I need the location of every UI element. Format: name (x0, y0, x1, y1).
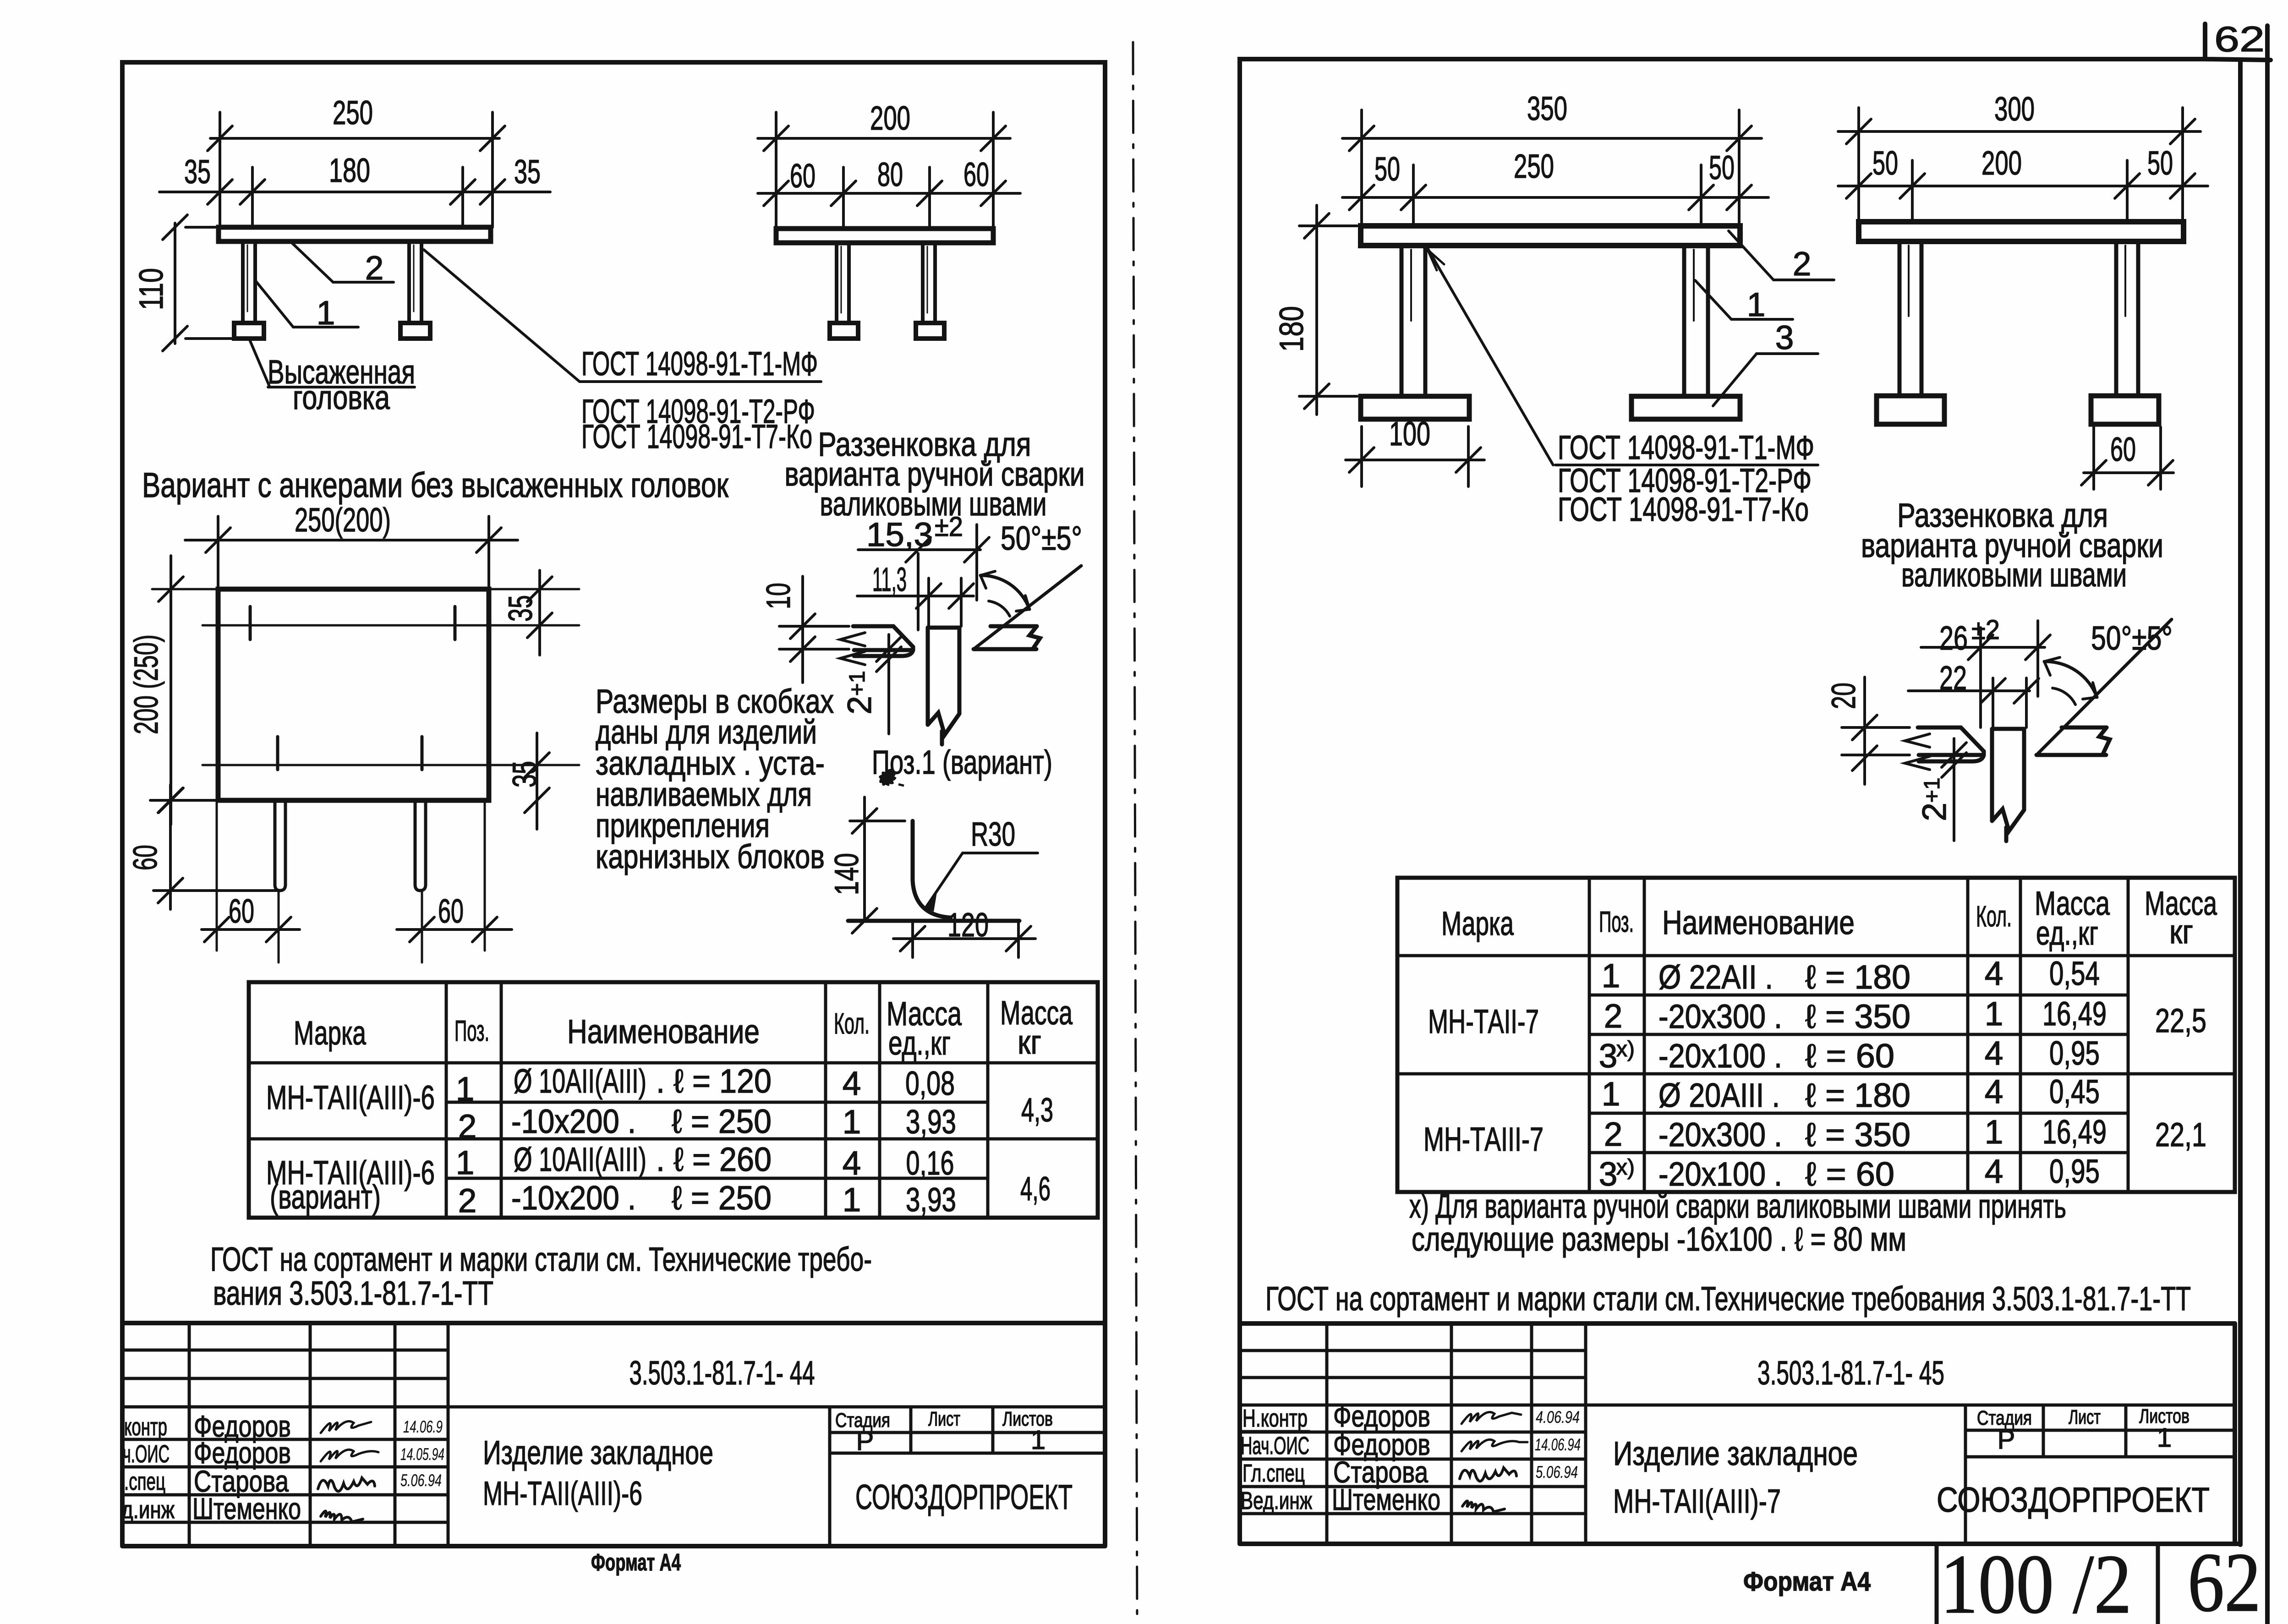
svg-text:Штеменко: Штеменко (1332, 1482, 1440, 1516)
svg-text:Ø 10АII(АIII): Ø 10АII(АIII) (514, 1141, 646, 1178)
svg-text:кг: кг (2169, 913, 2193, 951)
leader to GOST list (424, 250, 580, 382)
svg-text:16,49: 16,49 (2042, 1114, 2107, 1151)
svg-text:-10х200 .: -10х200 . (511, 1180, 636, 1217)
svg-text:50: 50 (1709, 149, 1735, 186)
anchor head left (830, 323, 858, 339)
svg-text:Лист: Лист (928, 1408, 960, 1430)
anchor legs below square (275, 800, 426, 891)
anchor rod section (928, 628, 959, 744)
svg-text:14.06.94: 14.06.94 (1535, 1435, 1581, 1454)
svg-text:ч.ОИС: ч.ОИС (123, 1440, 170, 1468)
svg-text:10: 10 (760, 583, 797, 609)
svg-text:-20х300 .: -20х300 . (1659, 998, 1782, 1035)
foot R1 left (1361, 396, 1469, 419)
drawing A: plate 250 side view (159, 112, 550, 351)
svg-text:МН-ТАII(АIII)-6: МН-ТАII(АIII)-6 (483, 1475, 642, 1512)
svg-text:(вариант): (вариант) (270, 1179, 381, 1216)
dim line 60 80 60 (758, 192, 1020, 195)
svg-text:ГОСТ 14098-91-Т1-МФ: ГОСТ 14098-91-Т1-МФ (1558, 429, 1814, 466)
svg-text:35: 35 (502, 595, 539, 622)
svg-text:1: 1 (2157, 1423, 2172, 1453)
svg-text:Изделие закладное: Изделие закладное (1613, 1435, 1858, 1472)
leg R1 right (1684, 246, 1708, 396)
svg-text:5.06.94: 5.06.94 (400, 1471, 442, 1490)
svg-text:1: 1 (456, 1144, 475, 1181)
dim line 35 180 35 (159, 191, 550, 193)
right page frame (1240, 24, 2271, 1624)
svg-text:ℓ = 60: ℓ = 60 (1805, 1156, 1894, 1193)
svg-text:60: 60 (2110, 431, 2136, 468)
svg-text:МН-ТАII(АIII)-7: МН-ТАII(АIII)-7 (1613, 1483, 1781, 1520)
svg-text:валиковыми швами: валиковыми швами (1901, 557, 2127, 594)
svg-text:100 /2: 100 /2 (1940, 1537, 2132, 1624)
svg-text:50: 50 (1374, 151, 1400, 188)
svg-text:ℓ = 350: ℓ = 350 (1805, 998, 1910, 1035)
anchor leg right (409, 241, 421, 323)
svg-text:14.05.94: 14.05.94 (400, 1445, 444, 1464)
svg-text:3,93: 3,93 (906, 1104, 956, 1141)
svg-text:0,95: 0,95 (2049, 1153, 2100, 1190)
svg-text:х): х) (1616, 1155, 1635, 1180)
svg-text:. ℓ = 120: . ℓ = 120 (656, 1063, 772, 1100)
svg-text:карнизных блоков: карнизных блоков (596, 838, 825, 875)
svg-text:1: 1 (843, 1181, 861, 1219)
plate R1 (1361, 226, 1740, 246)
left plate section right page (1905, 727, 1984, 770)
top anchors section marks (250, 607, 455, 640)
svg-text:х) Для варианта ручной сварки: х) Для варианта ручной сварки валиковыми… (1409, 1188, 2066, 1225)
svg-text:Н.контр: Н.контр (1243, 1405, 1308, 1432)
svg-text:ГОСТ на сортамент и марки стал: ГОСТ на сортамент и марки стали см.Техни… (1265, 1280, 2191, 1318)
svg-text:200 (250): 200 (250) (128, 634, 165, 734)
svg-text:0,95: 0,95 (2049, 1035, 2100, 1072)
svg-text:50°±5°: 50°±5° (1001, 520, 1082, 557)
svg-text:1: 1 (843, 1104, 861, 1141)
svg-text:2: 2 (458, 1108, 477, 1145)
svg-text:±2: ±2 (935, 511, 963, 542)
labels 2 1 3 right page (1729, 231, 1834, 280)
svg-text:Ø 10АII(АIII): Ø 10АII(АIII) (514, 1063, 646, 1100)
svg-text:50: 50 (1872, 145, 1898, 182)
svg-text:ℓ = 250: ℓ = 250 (672, 1180, 772, 1217)
R30 detail: rod with fillet (848, 821, 1019, 921)
svg-text:ℓ = 180: ℓ = 180 (1805, 1077, 1910, 1114)
anchor head right (400, 323, 430, 339)
svg-text:2: 2 (1793, 246, 1812, 283)
svg-text:Вариант с анкерами без высажен: Вариант с анкерами без высаженных голово… (142, 466, 729, 505)
svg-text:МН-ТАII(АIII)-6: МН-ТАII(АIII)-6 (266, 1079, 435, 1116)
svg-text:0,16: 0,16 (906, 1145, 954, 1182)
svg-text:Лист: Лист (2069, 1406, 2101, 1428)
ink blob (879, 769, 896, 786)
svg-text:180: 180 (1273, 306, 1310, 352)
svg-text:4.06.94: 4.06.94 (1536, 1408, 1580, 1427)
svg-text:СОЮЗДОРПРОЕКТ: СОЮЗДОРПРОЕКТ (1937, 1481, 2210, 1520)
plate R2 (1859, 222, 2184, 241)
svg-text:.спец: .спец (124, 1468, 165, 1495)
svg-text:26: 26 (1939, 620, 1968, 657)
right table (1397, 878, 2235, 1192)
leader to GOST right (1428, 248, 1553, 465)
svg-text:35: 35 (514, 153, 541, 191)
svg-text:350: 350 (1527, 90, 1567, 127)
svg-text:60: 60 (127, 845, 164, 870)
bottom right boxes 100/2 | 62 (1937, 1546, 2158, 1624)
svg-text:110: 110 (133, 268, 170, 310)
svg-text:-20х100 .: -20х100 . (1659, 1038, 1782, 1075)
svg-text:Наименование: Наименование (1662, 904, 1855, 941)
svg-text:1: 1 (317, 295, 335, 332)
svg-text:Формат А4: Формат А4 (591, 1549, 681, 1576)
left page frame (122, 62, 1105, 1545)
svg-text:. ℓ = 260: . ℓ = 260 (656, 1141, 772, 1178)
svg-text:3: 3 (1775, 319, 1794, 356)
svg-text:1: 1 (1602, 1076, 1620, 1113)
foot R2 right (2091, 396, 2159, 424)
svg-text:20: 20 (1825, 683, 1862, 709)
svg-text:Ø 22АII .: Ø 22АII . (1659, 959, 1773, 996)
svg-text:200: 200 (870, 100, 910, 137)
svg-text:60: 60 (790, 158, 816, 195)
svg-text:4,3: 4,3 (1021, 1092, 1053, 1129)
svg-text:Поз.: Поз. (1599, 905, 1634, 938)
anchor head right (916, 323, 944, 339)
left plate section with chamfer (840, 626, 913, 665)
foot R1 right (1631, 396, 1740, 419)
svg-text:250(200): 250(200) (295, 502, 391, 539)
foot R2 left (1877, 396, 1944, 424)
svg-text:ГОСТ 14098-91-Т1-МФ: ГОСТ 14098-91-Т1-МФ (581, 345, 818, 383)
svg-text:Р: Р (1998, 1425, 2015, 1454)
svg-text:3.503.1-81.7-1- 45: 3.503.1-81.7-1- 45 (1757, 1355, 1944, 1392)
svg-text:Штеменко: Штеменко (192, 1492, 301, 1526)
svg-text:62: 62 (2214, 19, 2265, 59)
svg-text:60: 60 (963, 156, 989, 193)
right title block (1240, 1323, 2240, 1544)
svg-text:3: 3 (1599, 1038, 1618, 1075)
svg-text:Наименование: Наименование (567, 1013, 760, 1050)
svg-text:1: 1 (456, 1071, 475, 1108)
left title block (122, 1323, 1105, 1546)
svg-text:22,5: 22,5 (2155, 1002, 2206, 1039)
svg-text:200: 200 (1981, 145, 2022, 182)
bottom anchors chord line (203, 764, 579, 766)
svg-text:2: 2 (458, 1182, 477, 1219)
svg-text:11,3: 11,3 (872, 561, 907, 598)
svg-text:22,1: 22,1 (2155, 1116, 2206, 1154)
leg R2 right (2116, 241, 2138, 396)
right plate with bevel (974, 566, 1081, 649)
svg-text:ГОСТ 14098-91-Т7-Ко: ГОСТ 14098-91-Т7-Ко (1558, 491, 1809, 528)
svg-text:0,08: 0,08 (905, 1065, 955, 1102)
svg-text:4,6: 4,6 (1020, 1170, 1051, 1208)
svg-text:3.503.1-81.7-1- 44: 3.503.1-81.7-1- 44 (629, 1355, 815, 1392)
svg-text:0,45: 0,45 (2049, 1073, 2100, 1110)
svg-text:Формат А4: Формат А4 (1743, 1567, 1871, 1597)
svg-text:СОЮЗДОРПРОЕКТ: СОЮЗДОРПРОЕКТ (855, 1478, 1073, 1517)
svg-text:ℓ = 180: ℓ = 180 (1805, 959, 1910, 996)
anchor leg left (837, 243, 849, 323)
svg-text:д.инж: д.инж (121, 1496, 175, 1524)
svg-text:250: 250 (1514, 148, 1554, 185)
anchor leg left (243, 241, 255, 323)
svg-text:-10х200 .: -10х200 . (511, 1103, 636, 1140)
svg-text:35: 35 (184, 153, 211, 191)
svg-text:50°±5°: 50°±5° (2091, 620, 2173, 657)
witness lines outer (219, 112, 221, 227)
svg-text:следующие размеры -16х100 . ℓ: следующие размеры -16х100 . ℓ = 80 мм (1412, 1221, 1906, 1258)
svg-text:ГОСТ на сортамент и марки стал: ГОСТ на сортамент и марки стали см. Техн… (210, 1241, 872, 1278)
svg-text:ед.,кг: ед.,кг (888, 1025, 951, 1062)
svg-text:Марка: Марка (294, 1015, 366, 1052)
svg-text:2: 2 (1604, 998, 1623, 1035)
svg-text:валиковыми швами: валиковыми швами (820, 486, 1047, 523)
svg-text:МН-ТАII-7: МН-ТАII-7 (1428, 1003, 1539, 1040)
svg-text:Ø 20АIII .: Ø 20АIII . (1659, 1077, 1780, 1114)
witness lines below legs (217, 800, 485, 962)
weld angle arc (980, 571, 1029, 616)
svg-text:контр: контр (124, 1413, 167, 1441)
svg-text:х): х) (1616, 1037, 1635, 1061)
svg-text:Кол.: Кол. (1976, 900, 2012, 933)
svg-text:1: 1 (1985, 995, 2003, 1033)
top anchors chord line (152, 589, 579, 625)
svg-text:5.06.94: 5.06.94 (1536, 1463, 1578, 1482)
svg-text:ГОСТ 14098-91-Т7-Ко: ГОСТ 14098-91-Т7-Ко (581, 418, 812, 455)
svg-text:ℓ = 60: ℓ = 60 (1805, 1038, 1894, 1075)
svg-text:300: 300 (1994, 91, 2035, 128)
svg-text:4: 4 (1985, 1035, 2003, 1072)
svg-text:Поз.: Поз. (454, 1014, 489, 1047)
svg-text:140: 140 (828, 853, 865, 895)
svg-text:-20х300 .: -20х300 . (1659, 1116, 1782, 1154)
svg-text:16,49: 16,49 (2042, 995, 2107, 1033)
svg-text:вания 3.503.1-81.7-1-ТТ: вания 3.503.1-81.7-1-ТТ (213, 1275, 493, 1312)
svg-text:1: 1 (1602, 957, 1620, 995)
svg-text:Марка: Марка (1441, 905, 1514, 942)
plate A (219, 227, 491, 241)
svg-text:-20х100 .: -20х100 . (1659, 1156, 1782, 1193)
anchor leg right (923, 243, 935, 323)
svg-text:Кол.: Кол. (834, 1007, 870, 1040)
svg-text:Гл.спец: Гл.спец (1243, 1460, 1305, 1487)
plate square outline (218, 589, 489, 800)
svg-text:50: 50 (2147, 145, 2173, 182)
svg-text:2: 2 (1604, 1116, 1623, 1153)
svg-text:62: 62 (2188, 1536, 2261, 1624)
svg-text:1: 1 (1985, 1114, 2003, 1151)
svg-text:3: 3 (1599, 1156, 1618, 1193)
witness lines inner (251, 167, 254, 227)
plate B (776, 229, 993, 243)
right plate with bevel right page (2036, 619, 2172, 755)
svg-text:60: 60 (229, 893, 254, 930)
signatures left (318, 1421, 378, 1522)
svg-text:180: 180 (329, 152, 370, 189)
dim 110 vertical (174, 223, 176, 344)
left table (249, 982, 1098, 1218)
svg-text:3,93: 3,93 (906, 1181, 956, 1219)
svg-text:4: 4 (1985, 1073, 2003, 1110)
svg-text:ℓ = 350: ℓ = 350 (1805, 1116, 1910, 1154)
anchor head left (234, 323, 264, 339)
svg-text:4: 4 (1985, 1153, 2003, 1190)
dim line 200 (758, 137, 1010, 140)
svg-text:60: 60 (438, 893, 464, 930)
svg-text:100: 100 (1389, 416, 1430, 453)
svg-text:1: 1 (1031, 1425, 1045, 1455)
svg-text:R30: R30 (971, 816, 1015, 853)
svg-text:0,54: 0,54 (2049, 955, 2100, 992)
weld angle arc right page (2044, 657, 2097, 705)
svg-text:1: 1 (1747, 286, 1766, 323)
svg-text:2: 2 (365, 250, 384, 287)
svg-text:Нач.ОИС: Нач.ОИС (1241, 1432, 1309, 1460)
drawing B: plate 200 side view (758, 112, 1020, 229)
svg-text:ℓ = 250: ℓ = 250 (672, 1103, 772, 1140)
bottom anchors section marks (278, 737, 422, 770)
svg-text:80: 80 (877, 156, 903, 193)
signatures right (1460, 1412, 1527, 1512)
svg-text:МН-ТАIII-7: МН-ТАIII-7 (1423, 1121, 1544, 1158)
svg-text:250: 250 (333, 94, 373, 131)
label 2 leader (292, 243, 394, 282)
svg-text:Р: Р (856, 1426, 874, 1456)
svg-text:4: 4 (843, 1145, 861, 1182)
leg R2 left (1899, 241, 1921, 396)
svg-text:головка: головка (293, 379, 390, 416)
svg-text:14.06.9: 14.06.9 (403, 1417, 443, 1436)
svg-text:15,3: 15,3 (866, 516, 933, 553)
svg-text:Изделие закладное: Изделие закладное (483, 1434, 713, 1471)
fold dash-dot line between pages (1133, 42, 1137, 1622)
svg-text:Вед.инж: Вед.инж (1241, 1487, 1312, 1515)
svg-text:кг: кг (1018, 1024, 1041, 1061)
svg-text:Поз.1 (вариант): Поз.1 (вариант) (872, 744, 1052, 781)
anchor rod section right page (1992, 729, 2024, 841)
dim line 250 (210, 137, 499, 140)
label 1 leader (255, 280, 358, 327)
leg R1 left (1401, 246, 1425, 396)
svg-text:ед.,кг: ед.,кг (2036, 915, 2098, 952)
svg-text:4: 4 (1985, 955, 2003, 992)
svg-text:4: 4 (843, 1065, 861, 1102)
